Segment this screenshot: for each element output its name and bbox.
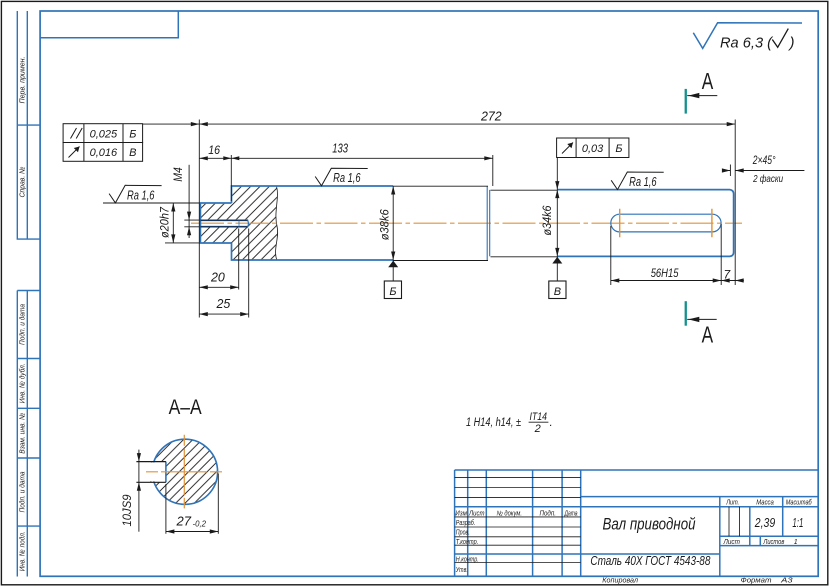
- arrows 20: [199, 285, 238, 289]
- svg-text:Сталь 40Х ГОСТ 4543-88: Сталь 40Х ГОСТ 4543-88: [590, 553, 711, 568]
- tolerance frame 1 (parallelism 0,025 Б / runout 0,016 В): [63, 124, 143, 162]
- section mark A top: teal stroke: [685, 89, 687, 114]
- svg-text:0,025: 0,025: [90, 128, 118, 140]
- svg-text:Справ. №: Справ. №: [17, 167, 26, 198]
- step face Ø38/Ø34: [487, 186, 490, 260]
- svg-text:1 Н14, h14, ±: 1 Н14, h14, ±: [466, 417, 521, 429]
- svg-text:А–А: А–А: [169, 396, 202, 419]
- section mark A bottom: teal stroke: [685, 301, 687, 326]
- svg-text:Ra 6,3 (: Ra 6,3 (: [720, 34, 774, 51]
- svg-text:25: 25: [216, 297, 231, 311]
- extension line: left face (long): [198, 120, 200, 318]
- section circle hatch (minus keyway notch): [150, 439, 218, 504]
- svg-text:-0,2: -0,2: [193, 519, 207, 528]
- arrows 10JS9 (outside): [137, 453, 141, 491]
- dimension line 25: [199, 313, 248, 315]
- datum Б triangle: [388, 261, 398, 268]
- keyway notch sides / extension lines: [136, 462, 166, 483]
- dimension line 16 / 133: [199, 157, 493, 159]
- arrows Ø38k6: [391, 186, 395, 260]
- svg-text:Дата: Дата: [564, 510, 578, 517]
- keyway notch flat (blue): [165, 462, 167, 483]
- svg-text:ø34k6: ø34k6: [540, 205, 554, 235]
- axial hole end: [247, 220, 250, 226]
- shaft hatch: big section up to break line, hole cut out: [232, 187, 278, 260]
- arrows 56H15: [611, 278, 721, 282]
- svg-text:Лист: Лист: [723, 539, 740, 546]
- svg-text:0,016: 0,016: [90, 147, 118, 159]
- shaft hatch: local section left stub upper: [201, 204, 232, 220]
- svg-text:А3: А3: [780, 578, 793, 585]
- section mark A top: arrow: [687, 95, 717, 97]
- datum box В: [549, 281, 566, 299]
- svg-text:2×45°: 2×45°: [752, 155, 776, 167]
- arrows M4: [187, 212, 191, 236]
- svg-text:Вал приводной: Вал приводной: [603, 515, 696, 534]
- arrows 7 (outside): [721, 278, 744, 282]
- svg-text:Разраб.: Разраб.: [456, 519, 476, 527]
- svg-text:Б: Б: [129, 128, 136, 140]
- svg-text:В: В: [129, 147, 136, 159]
- svg-text:Листов: Листов: [763, 539, 785, 546]
- svg-text:133: 133: [332, 141, 348, 155]
- dimension line Ø20h7 (vertical): [172, 203, 174, 243]
- axial hole M4 thread lines: [200, 220, 248, 226]
- extension line: hole depth 25 at x=248.7: [248, 229, 250, 318]
- tolerance frame 2 (runout 0,03 Б): [557, 138, 629, 158]
- datum В triangle: [552, 257, 562, 264]
- roughness mark Ra 1,6 #3 (keyway section): [611, 172, 664, 190]
- svg-text:Н.контр.: Н.контр.: [456, 556, 479, 563]
- left margin stamp group 1 box: [17, 11, 40, 239]
- svg-text:Пров.: Пров.: [456, 530, 470, 537]
- dimension line M4 (vertical): [188, 165, 190, 238]
- arrows 16: [199, 156, 231, 160]
- svg-text:IT14: IT14: [530, 411, 548, 423]
- svg-text:Инв. № подл.: Инв. № подл.: [17, 531, 26, 571]
- svg-text:Подп.: Подп.: [540, 509, 557, 517]
- svg-text:): ): [788, 34, 795, 51]
- arrows Ø20h7: [171, 203, 175, 243]
- svg-text:2: 2: [534, 423, 541, 435]
- svg-text:Масса: Масса: [756, 499, 774, 506]
- thread depth boundary: [238, 221, 240, 227]
- keyway arc center marks (orange): [620, 209, 712, 237]
- top-left designation box: [40, 11, 178, 38]
- left margin stamp group 2 box: [17, 291, 40, 577]
- runout symbol row2: [69, 147, 80, 158]
- dimension line 10JS9: [138, 450, 140, 532]
- svg-text:Утв.: Утв.: [455, 567, 468, 574]
- arrows Ø34k6: [555, 190, 559, 257]
- shaft outline: right section Ø34k6 blue parts with chamfered end: [557, 190, 733, 257]
- svg-text:Изм: Изм: [455, 510, 467, 517]
- svg-text:Инв. № дубл.: Инв. № дубл.: [17, 363, 26, 403]
- extension lines: hole lines for M4 dim: [184, 220, 199, 227]
- svg-text:№ докум.: № докум.: [497, 509, 523, 517]
- svg-text:Б: Б: [389, 286, 396, 298]
- svg-text:Подп. и дата: Подп. и дата: [17, 472, 26, 513]
- section circle outline: [152, 439, 217, 504]
- svg-text:2,39: 2,39: [754, 516, 775, 530]
- centerline (axis): [191, 222, 742, 224]
- arrow leader 0,03 frame (down to Ø34 top): [555, 181, 559, 190]
- dimension line 20: [199, 286, 238, 288]
- svg-text:ø20h7: ø20h7: [158, 206, 172, 238]
- svg-text:Масштаб: Масштаб: [786, 498, 813, 506]
- section mark A bottom: arrow: [687, 318, 717, 320]
- arrows 272: [199, 122, 735, 126]
- svg-text:272: 272: [480, 108, 502, 123]
- extension lines 27-0.2: [166, 474, 218, 534]
- svg-text:Взам. инв. №: Взам. инв. №: [17, 413, 26, 454]
- dimension line Ø38k6 + datum Б stem: [392, 186, 394, 281]
- svg-text:А: А: [702, 321, 714, 347]
- shaft outline: middle section Ø38k6 (blue parts): [232, 186, 394, 260]
- dimension line 272 with frame leader: [143, 123, 736, 125]
- arrow leader frame1: [191, 122, 200, 126]
- general roughness Ra 6,3 top-right (blue check): [693, 23, 802, 49]
- wavy break line: [276, 187, 278, 260]
- svg-text:Подп. и дата: Подп. и дата: [17, 304, 26, 345]
- dimension line 56H15 / 7: [611, 280, 744, 282]
- shaft outline: left stub Ø20h7: [200, 203, 231, 243]
- section centerlines (orange cross): [146, 471, 223, 473]
- dimension line 27-0.2: [166, 531, 218, 533]
- roughness mark Ra 1,6 #2 (Ø38 section): [315, 168, 368, 186]
- svg-text:В: В: [554, 286, 561, 298]
- extension line: stub right end x=231.3: [230, 155, 232, 201]
- extension line: stub top edge to Ra and Ø20h7 dim: [103, 202, 199, 204]
- svg-text:20: 20: [210, 271, 225, 285]
- svg-text:Т.контр.: Т.контр.: [456, 539, 479, 546]
- roughness mark Ra 1,6 #1 (left stub): [109, 185, 162, 203]
- shaft hatch: local section left stub lower: [201, 227, 232, 242]
- chamfer dim 2x45: shelf and arrows line: [722, 170, 804, 172]
- arrows 133: [231, 156, 493, 160]
- svg-text:Ra 1,6: Ra 1,6: [333, 171, 361, 185]
- svg-text:М4: М4: [171, 167, 185, 182]
- extension line: stub bottom edge: [165, 242, 199, 244]
- svg-text:А: А: [702, 68, 714, 94]
- keyway slot (stadium): [611, 214, 721, 232]
- small check in parens: [772, 29, 788, 48]
- title block thin black row lines: [455, 477, 740, 562]
- svg-text:16: 16: [208, 143, 220, 157]
- svg-text:2 фаски: 2 фаски: [752, 173, 783, 185]
- svg-text:27: 27: [176, 514, 192, 529]
- svg-text:Лист: Лист: [468, 510, 484, 517]
- svg-text:10JS9: 10JS9: [120, 494, 134, 526]
- arrows 2x45 chamfer: [722, 168, 744, 172]
- extension line: keyway left end: [610, 226, 612, 285]
- datum box Б: [384, 281, 401, 299]
- svg-text:ø38k6: ø38k6: [378, 209, 392, 240]
- svg-text:Формат: Формат: [741, 578, 772, 585]
- extension line: keyway right end: [720, 224, 722, 285]
- arrows 27-0.2: [166, 529, 218, 533]
- svg-text:56Н15: 56Н15: [651, 266, 679, 280]
- svg-text:Копировал: Копировал: [602, 578, 638, 585]
- erase circle arc at keyway notch: [150, 462, 166, 481]
- svg-text:Лит.: Лит.: [725, 499, 739, 506]
- svg-text:Перв. примен.: Перв. примен.: [17, 57, 26, 104]
- extension line: 133 right end x=492.8: [492, 155, 494, 186]
- parallelism symbol: [71, 128, 83, 139]
- svg-text:0,03: 0,03: [582, 143, 604, 155]
- black edge segments (over dimension span): [393, 186, 557, 260]
- svg-text:Ra 1,6: Ra 1,6: [629, 175, 657, 189]
- svg-text:1: 1: [794, 539, 798, 546]
- arrows 25: [199, 312, 248, 316]
- extension line: thread depth 20 at x=238.7: [238, 229, 240, 290]
- extension line: right end (long): [734, 120, 736, 286]
- svg-text:Ra 1,6: Ra 1,6: [127, 189, 155, 203]
- extension: chamfer edge: [729, 165, 731, 177]
- leader + dimension line Ø34k6 + datum В stem: [556, 158, 558, 282]
- svg-text:Б: Б: [615, 143, 622, 155]
- svg-text:.: .: [550, 417, 553, 429]
- svg-text:1:1: 1:1: [792, 516, 803, 530]
- title block main blue lines: [455, 470, 819, 577]
